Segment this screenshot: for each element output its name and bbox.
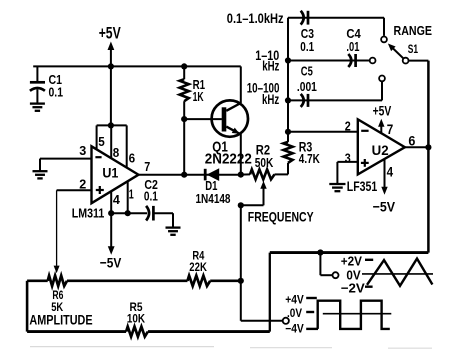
potentiometer R2 50K [241, 169, 288, 179]
triangle wave axis [362, 273, 433, 275]
wire right bus vertical [427, 61, 430, 253]
wire bottom rail [27, 330, 270, 333]
wire pin 5 [96, 125, 98, 150]
svg-text:6: 6 [129, 151, 136, 166]
R6 wiper arrow [54, 190, 60, 273]
svg-text:C5: C5 [301, 64, 313, 79]
capacitor C4 [348, 54, 355, 67]
op-amp U2 LF351 triangle [358, 119, 405, 174]
U1 label LM311 [72, 206, 105, 220]
triangle wave output terminal [333, 272, 339, 278]
svg-text:0.1: 0.1 [49, 85, 64, 99]
U1 minus input mark [95, 156, 101, 158]
U2 designator [372, 142, 389, 158]
capacitor C2 [146, 206, 153, 221]
pin number 4 U2 [387, 164, 394, 179]
svg-text:kHz: kHz [262, 92, 279, 107]
wire base of Q1 [184, 118, 222, 120]
pin number 6 U2 [408, 133, 415, 148]
resistor R3 labels [299, 140, 320, 167]
svg-text:2: 2 [345, 118, 351, 133]
node junction wiper [238, 202, 244, 208]
wire C2 to ground [153, 213, 173, 227]
resistor R1 [180, 66, 189, 119]
node junction triangle output tap [317, 249, 323, 255]
power -5V arrow U2 pin 4 [373, 159, 396, 214]
pin number 6 [129, 151, 136, 166]
svg-text:3: 3 [79, 143, 86, 158]
pin number 8 [113, 145, 120, 160]
range row label 10-100 kHz [247, 81, 280, 108]
svg-text:−4V: −4V [285, 322, 304, 336]
wire pin 4 [110, 191, 112, 213]
wire cap bus vertical [287, 18, 289, 132]
op-amp U1 LM311 triangle [92, 146, 139, 203]
svg-text:5: 5 [98, 134, 105, 149]
capacitor C3 labels [300, 26, 314, 54]
switch S1 pole contact [403, 58, 409, 64]
resistor R1 labels [193, 78, 206, 104]
ground for U2 pin 3 [329, 184, 345, 191]
wire C3 row [288, 17, 384, 19]
capacitor C1 stub wire [36, 66, 38, 82]
node junction R1 base [181, 116, 187, 122]
wire U1 output pin 7 [139, 174, 241, 176]
pin number 3 [79, 143, 86, 158]
svg-text:8: 8 [113, 145, 120, 160]
svg-text:+4V: +4V [285, 293, 304, 307]
capacitor C1 [30, 82, 45, 103]
svg-text:4.7K: 4.7K [299, 152, 320, 166]
wire U2 pin 3 [337, 162, 357, 184]
wire C4 row [288, 60, 369, 62]
svg-text:1: 1 [129, 187, 134, 202]
svg-text:−2V: −2V [341, 281, 365, 296]
potentiometer R6 5K row wire [27, 279, 187, 282]
wire C5 row [288, 99, 382, 101]
U1 designator [102, 164, 118, 180]
resistor R4 labels [189, 249, 207, 274]
wire pole to right bus [409, 60, 429, 62]
wire pin 1 [127, 181, 129, 213]
range row label 0.1-1.0kHz [227, 10, 284, 26]
pin number 1 [129, 187, 134, 202]
pin number 2 [79, 177, 86, 192]
svg-text:3: 3 [345, 151, 351, 166]
U2 minus input mark [361, 130, 368, 132]
U2 label LF351 [347, 179, 378, 194]
wire emitter line down to square output [241, 205, 283, 320]
wire output rail [270, 251, 429, 254]
R6 labels [29, 288, 92, 328]
capacitor C1 value label [49, 73, 64, 99]
pin number 7 [144, 159, 150, 174]
capacitor C3 [301, 11, 308, 25]
Q1 designator labels [205, 138, 252, 167]
node junction output/D1 left [181, 172, 187, 178]
svg-text:+2V: +2V [341, 254, 362, 269]
range row label 1-10 kHz [255, 48, 279, 74]
wire bus to U2 pin 2 [288, 131, 358, 133]
triangle waveform [367, 259, 432, 286]
switch S1 contact C4 [370, 58, 376, 64]
power -5V arrow U1 pin4 [100, 213, 122, 270]
resistor R3 [283, 132, 292, 175]
wire pin 3 input [40, 158, 92, 160]
svg-text:LM311: LM311 [72, 206, 105, 220]
resistor R5 10K [126, 327, 148, 337]
square waveform [318, 301, 390, 329]
svg-text:AMPLITUDE: AMPLITUDE [29, 312, 92, 327]
potentiometer R2 labels [255, 142, 273, 170]
capacitor C5 [301, 94, 308, 107]
node junction pin4 bus [108, 210, 114, 216]
svg-text:S1: S1 [408, 44, 419, 56]
switch label RANGE [394, 24, 433, 38]
paper artifacts (ignored decorative) [30, 347, 432, 349]
svg-text:0.1–1.0kHz: 0.1–1.0kHz [227, 10, 284, 26]
svg-text:.0V: .0V [287, 306, 302, 320]
node junction R4/emitter line [238, 278, 244, 284]
square wave labels [285, 293, 318, 336]
square wave axis [323, 313, 392, 315]
svg-text:6: 6 [408, 133, 415, 148]
svg-text:4: 4 [113, 192, 121, 207]
wire R1 node down to D1 row [183, 119, 185, 175]
U1 plus input mark [96, 186, 104, 194]
wire U2 output [405, 146, 429, 148]
power +5V supply arrow [99, 24, 122, 67]
wire pin 8 [110, 125, 112, 158]
svg-text:0.1: 0.1 [300, 39, 314, 54]
svg-text:RANGE: RANGE [394, 24, 433, 38]
svg-text:FREQUENCY: FREQUENCY [248, 208, 314, 224]
node junction C4 row [285, 57, 291, 63]
node junction C5 row [285, 97, 291, 103]
wire Q1 collector to +5V rail [240, 66, 242, 103]
svg-text:−5V: −5V [100, 254, 122, 270]
svg-text:.01: .01 [346, 39, 359, 54]
pin number 4 [113, 192, 121, 207]
svg-text:D1: D1 [205, 179, 217, 193]
svg-text:+5V: +5V [99, 24, 122, 43]
node junction emitter/D1/R2 [238, 172, 244, 178]
svg-text:4: 4 [387, 164, 394, 179]
node junction +5V/C1/U1 [108, 63, 114, 69]
switch S1 contact C3 [381, 37, 387, 43]
resistor R4 22K [188, 276, 241, 286]
pin number 2 U2 [345, 118, 351, 133]
wire Q1 emitter down [240, 134, 242, 175]
transistor Q1 2N2222 [212, 100, 248, 136]
wire top +5V rail [33, 65, 241, 67]
wire tap down to triangle output [320, 253, 332, 276]
svg-text:+5V: +5V [373, 102, 392, 118]
ground for pin 3 [33, 159, 48, 179]
svg-text:7: 7 [387, 122, 394, 137]
resistor R5 labels [127, 300, 145, 325]
wire C5 row to switch contact [381, 81, 383, 100]
svg-text:7: 7 [144, 159, 150, 174]
diode D1 [205, 168, 219, 181]
capacitor C4 labels [346, 26, 361, 54]
U2 plus input mark [361, 159, 369, 167]
wire C3 row to switch contact [383, 18, 385, 36]
pin number 3 U2 [345, 151, 351, 166]
capacitor C2 labels [144, 178, 158, 204]
node junction +5V/R1 [181, 63, 187, 69]
svg-text:1N4148: 1N4148 [196, 192, 231, 206]
node junction U2 pin2 row [285, 129, 291, 135]
pin number 5 [98, 134, 105, 149]
potentiometer R6 5K [48, 276, 67, 286]
node label FREQUENCY [248, 208, 314, 224]
node junction pin1 bus [125, 210, 131, 216]
ground for C2 [166, 228, 181, 235]
wire left side vertical [26, 281, 29, 332]
svg-text:U1: U1 [102, 164, 118, 180]
svg-text:10K: 10K [127, 311, 145, 325]
svg-text:50K: 50K [255, 156, 273, 170]
node junction U2 output bus [425, 144, 431, 150]
wire U1 bottom bus [111, 212, 147, 214]
wire bottom right vertical up [269, 253, 271, 332]
capacitor C5 labels [297, 64, 317, 95]
square wave output terminal [283, 318, 289, 324]
switch label S1 [408, 44, 419, 56]
svg-text:1K: 1K [193, 90, 204, 104]
wire pin 2 input [57, 189, 92, 191]
wire pin 6 [126, 125, 128, 167]
svg-text:.001: .001 [297, 79, 317, 94]
svg-text:LF351: LF351 [347, 179, 378, 194]
wire U1 pin bus 5-8-6 [97, 124, 127, 126]
triangle wave labels [341, 254, 373, 296]
svg-text:0.1: 0.1 [144, 190, 158, 204]
svg-text:−5V: −5V [373, 199, 396, 215]
svg-text:2N2222: 2N2222 [205, 150, 252, 167]
node junction U1 pin bus [108, 122, 114, 128]
svg-text:kHz: kHz [262, 59, 279, 74]
ground for C1 [30, 104, 45, 111]
wire +5V down to U1 pins [110, 66, 112, 125]
svg-text:U2: U2 [372, 142, 389, 158]
switch S1 arm [388, 44, 404, 59]
power +5V arrow U2 pin 7 [373, 102, 392, 133]
svg-text:22K: 22K [189, 260, 207, 274]
R2 wiper arrow [241, 181, 267, 205]
pin number 7 U2 [387, 122, 394, 137]
diode D1 labels [196, 179, 231, 206]
switch S1 contact C5 [379, 76, 385, 82]
